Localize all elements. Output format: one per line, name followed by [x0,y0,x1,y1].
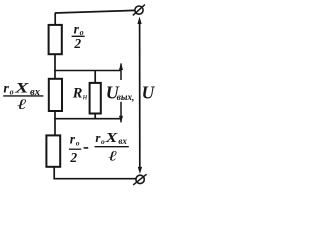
terminal top-right [135,6,143,14]
resistor r0/2 - r0Xvx/l (bottom) [46,135,60,166]
svg-text:o: o [76,139,80,148]
svg-text:вх: вх [118,136,127,146]
wire Rn top drop [94,71,96,83]
label Rn [72,85,88,101]
node line top (y=70.5) [54,70,121,72]
svg-text:,: , [131,94,134,104]
svg-text:U: U [142,82,156,102]
wire Rn bottom drop [94,114,96,119]
wire bus upper-middle [54,54,56,79]
resistor r0*Xvx/l (middle-left) [49,79,62,111]
label r0 Xvx / l [3,79,43,113]
resistor r0/2 (top) [49,25,62,54]
node line bottom (y=118.7) [54,118,121,120]
wire top-left vertical [54,13,56,25]
svg-text:ℓ: ℓ [17,97,27,113]
svg-text:o: o [101,137,105,146]
svg-text:н: н [83,92,88,102]
Uvyx annotation arrow up [120,64,122,81]
right bus with U arrows [139,20,141,168]
svg-text:X: X [104,131,117,146]
label Uvyx [106,82,135,103]
wire bottom-left corner [54,167,135,179]
svg-text:R: R [72,85,83,101]
wire top horizontal [55,10,135,13]
terminal bottom-right [136,175,144,183]
svg-text:ℓ: ℓ [108,148,117,164]
label r0/2 - r0 Xvx / l [69,130,129,165]
svg-text:2: 2 [73,36,81,51]
wire bus lower-middle [54,111,56,135]
svg-text:o: o [10,87,14,96]
resistor Rn (middle) [90,83,101,114]
svg-text:вых: вых [117,93,133,103]
svg-text:r: r [3,81,9,96]
Uvyx annotation arrow down [120,102,122,123]
svg-text:2: 2 [69,150,77,165]
svg-text:X: X [14,79,30,96]
label r0/2 [72,21,85,50]
